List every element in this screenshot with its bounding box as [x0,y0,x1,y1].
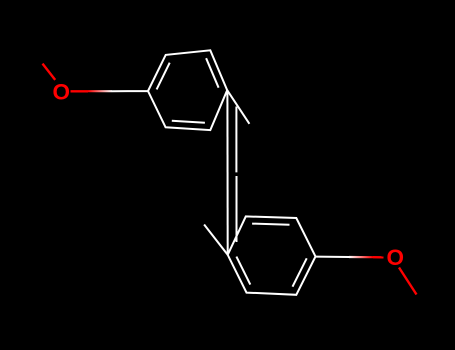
chain stub at upper ring (cis bond line) [227,90,249,124]
aromatic inner bond BL-L (lower ring) [236,257,250,285]
bond O-C(aryl) white part (upper) [112,90,148,92]
benzene ring (upper anisole) [148,50,227,130]
benzene ring (lower anisole) [228,216,316,294]
aromatic inner bond TL-TR (lower ring) [252,224,289,225]
chain stub at lower ring (cis bond line) [204,225,228,255]
bond C(aryl)-O white-red transition (lower) [349,256,373,258]
triple bond parallel line 2 [236,176,238,242]
triple bond parallel line 1 [235,107,237,173]
aromatic inner bond L-TL (upper ring) [157,63,170,90]
chain main line (diyne backbone vertical) [226,90,228,255]
bond C(aryl)-O red part (lower) [373,256,384,258]
svg-text:O: O [386,245,404,270]
methyl bond CH3-O (upper methoxy) [43,64,56,80]
methyl bond O-CH3 (lower methoxy) [399,268,417,295]
bond C(aryl)-O white part (lower) [316,256,350,258]
aromatic inner bond R-BR (lower ring) [293,258,307,286]
aromatic inner bond TR-R (upper ring) [206,58,219,87]
aromatic inner bond BR-BL (upper ring) [172,121,205,123]
svg-text:O: O [52,79,70,104]
bond O-C(aryl) red-white transition (upper) [88,90,112,92]
bond O-C(aryl) red part (upper) [71,90,89,92]
